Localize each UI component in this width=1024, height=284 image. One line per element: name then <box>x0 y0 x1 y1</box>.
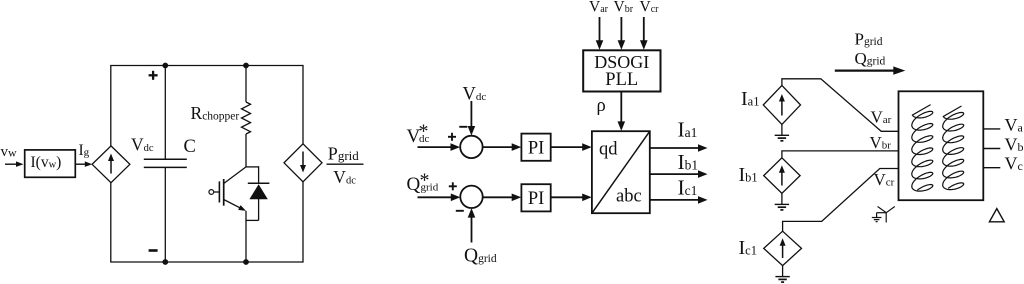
label S1 plus <box>448 133 456 141</box>
label S2 minus <box>456 210 464 212</box>
wire G1 to bottom rail <box>110 183 112 262</box>
wire output Ia1 arrow <box>650 144 708 152</box>
wire Ib1 to transformer Vbr <box>782 151 899 158</box>
label Ia1 source <box>741 88 759 110</box>
wire PI2 to qd-abc <box>551 194 592 202</box>
block qd-abc transform <box>592 131 650 213</box>
svg-text:Ig: Ig <box>79 142 90 159</box>
junction dot cap bottom <box>162 259 168 265</box>
label Pgrid over Vdc fraction <box>327 144 364 187</box>
svg-text:Vcr: Vcr <box>640 0 660 15</box>
delta symbol <box>989 209 1004 222</box>
controlled current source Ia1 <box>763 85 800 124</box>
svg-text:Qgrid: Qgrid <box>464 246 497 267</box>
summing junction S1 <box>460 136 482 158</box>
label S2 plus <box>449 182 457 190</box>
node Qgrid* reference label <box>407 170 439 196</box>
svg-text:Var: Var <box>871 108 892 127</box>
transistor Q1 IGBT <box>209 167 246 211</box>
diode D1 antiparallel <box>248 183 270 220</box>
wire cap branch top <box>164 65 166 159</box>
wire Ia1 to transformer Var <box>782 79 899 132</box>
svg-text:vw: vw <box>1 144 18 160</box>
label rho <box>597 96 606 116</box>
label Rchopper <box>191 103 240 123</box>
wye ground symbol <box>872 207 895 223</box>
transformer T1 secondary winding <box>943 106 964 190</box>
wire output Ic1 arrow <box>650 196 708 204</box>
summing junction S2 <box>460 186 482 208</box>
node Ig label <box>79 142 90 159</box>
svg-text:dc: dc <box>419 133 430 145</box>
svg-text:Vbr: Vbr <box>614 0 634 15</box>
label Vcr terminal <box>874 170 895 189</box>
wire right rail lower <box>302 182 304 263</box>
svg-text:Pgrid: Pgrid <box>328 144 359 164</box>
wire chopper branch upper <box>245 65 247 102</box>
wire Qgrid* arrow into summer S2 <box>418 194 461 202</box>
node vw input label <box>1 144 18 160</box>
svg-text:PLL: PLL <box>605 70 638 90</box>
svg-text:Qgrid: Qgrid <box>855 49 886 68</box>
wire Vc stub <box>983 167 1000 169</box>
ground below Ic1 <box>775 266 789 283</box>
wire Vdc feedback arrow down <box>468 101 476 136</box>
wire Var arrow into PLL <box>596 17 604 50</box>
svg-text:Vbr: Vbr <box>870 133 892 152</box>
node Vbr top label <box>614 0 634 15</box>
svg-text:I(vw): I(vw) <box>31 154 62 171</box>
node Qgrid feedback label <box>464 246 497 267</box>
label Va <box>1005 115 1024 135</box>
capacitor C plates <box>144 159 187 167</box>
svg-text:Pgrid: Pgrid <box>855 30 883 49</box>
svg-text:Vdc: Vdc <box>463 84 487 104</box>
node Vdc* reference label <box>407 121 430 148</box>
svg-text:Vcr: Vcr <box>874 170 895 189</box>
transformer T1 primary winding <box>912 105 933 192</box>
wire DC bus top rail <box>110 65 303 67</box>
wire power flow arrow <box>835 66 906 74</box>
label Qgrid power flow <box>855 49 886 68</box>
wire Ig arrow into source G1 <box>75 161 92 167</box>
wire S1 to PI1 <box>483 143 522 151</box>
svg-text:Ia1: Ia1 <box>678 118 698 142</box>
label Ib1 source <box>739 164 758 186</box>
node Ia1 output label <box>678 118 698 142</box>
controlled current source Ic1 <box>764 231 802 265</box>
svg-text:Vc: Vc <box>1005 154 1023 174</box>
label C <box>184 137 196 157</box>
wire Vb stub <box>983 148 1000 150</box>
svg-text:Rchopper: Rchopper <box>191 103 240 123</box>
wire vw input arrow <box>5 161 24 167</box>
controlled current source Ib1 <box>764 158 800 194</box>
block DSOGI PLL <box>583 50 660 91</box>
wire DC bus bottom rail <box>110 261 303 263</box>
wire rho arrow into qd-abc <box>618 92 626 131</box>
svg-text:abc: abc <box>616 187 642 207</box>
wire S2 to PI2 <box>483 194 522 202</box>
wire PI1 to qd-abc <box>551 143 592 151</box>
svg-text:Vdc: Vdc <box>333 167 356 187</box>
label minus polarity <box>149 249 158 252</box>
wire emitter to bottom rail <box>245 211 247 262</box>
wire output Ib1 arrow <box>650 170 708 178</box>
svg-text:Ib1: Ib1 <box>678 150 699 174</box>
svg-text:Ic1: Ic1 <box>678 175 698 199</box>
wire diode branch upper <box>258 166 260 183</box>
resistor Rchopper zigzag <box>242 102 251 134</box>
block PI1 <box>521 134 550 161</box>
svg-text:grid: grid <box>421 181 439 193</box>
wire diode jog to emitter rail <box>245 219 258 221</box>
wire G1 to top rail <box>110 66 112 146</box>
controlled current source G1 (wind) <box>92 146 130 183</box>
label Vb <box>1005 135 1024 155</box>
ground below Ia1 <box>775 124 789 140</box>
svg-text:Var: Var <box>589 0 609 15</box>
wire Qgrid feedback arrow up <box>468 208 476 242</box>
wire collector jog to diode <box>246 166 259 168</box>
svg-text:PI: PI <box>528 189 544 209</box>
junction dot chopper bottom <box>243 259 249 265</box>
svg-text:DSOGI: DSOGI <box>594 52 649 72</box>
svg-text:Vdc: Vdc <box>131 135 154 155</box>
wire right rail upper <box>302 65 304 144</box>
label Var terminal <box>871 108 892 127</box>
wire Vcr arrow into PLL <box>640 17 648 50</box>
svg-text:Vb: Vb <box>1005 135 1024 155</box>
wire Vdc* arrow into summer S1 <box>418 143 461 151</box>
wire resistor to collector node <box>245 134 247 167</box>
svg-text:Q: Q <box>407 174 421 195</box>
label Ic1 source <box>739 237 757 259</box>
ground below Ib1 <box>775 193 789 210</box>
label Vc <box>1005 154 1023 174</box>
junction dot cap top <box>162 63 168 69</box>
node Vcr top label <box>640 0 660 15</box>
svg-text:Ib1: Ib1 <box>739 164 758 186</box>
svg-text:Ia1: Ia1 <box>741 88 759 110</box>
svg-text:ρ: ρ <box>597 96 606 116</box>
node Vdc feedback label <box>463 84 487 104</box>
svg-text:C: C <box>184 137 196 157</box>
wire Va stub <box>983 128 1000 130</box>
block I(vw) wind-source function box <box>25 150 76 177</box>
svg-text:PI: PI <box>528 139 544 159</box>
wire cap branch bottom <box>164 167 166 262</box>
label Vbr terminal <box>870 133 892 152</box>
junction dot chopper top <box>243 63 249 69</box>
wire Ic1 to transformer Vcr <box>783 169 899 232</box>
block PI2 <box>521 184 550 211</box>
label plus polarity <box>149 71 158 80</box>
label Vdc bus <box>131 135 154 155</box>
controlled current source G2 (Pgrid/Vdc) <box>284 144 322 182</box>
label Pgrid power flow <box>855 30 883 49</box>
wire Vbr arrow into PLL <box>618 17 626 50</box>
transformer T1 box <box>899 91 984 200</box>
svg-text:Va: Va <box>1005 115 1024 135</box>
label S1 minus <box>459 126 467 128</box>
node Ic1 output label <box>678 175 698 199</box>
node Var top label <box>589 0 609 15</box>
node Ib1 output label <box>678 150 699 174</box>
svg-text:Ic1: Ic1 <box>739 237 757 259</box>
svg-text:qd: qd <box>599 140 618 160</box>
